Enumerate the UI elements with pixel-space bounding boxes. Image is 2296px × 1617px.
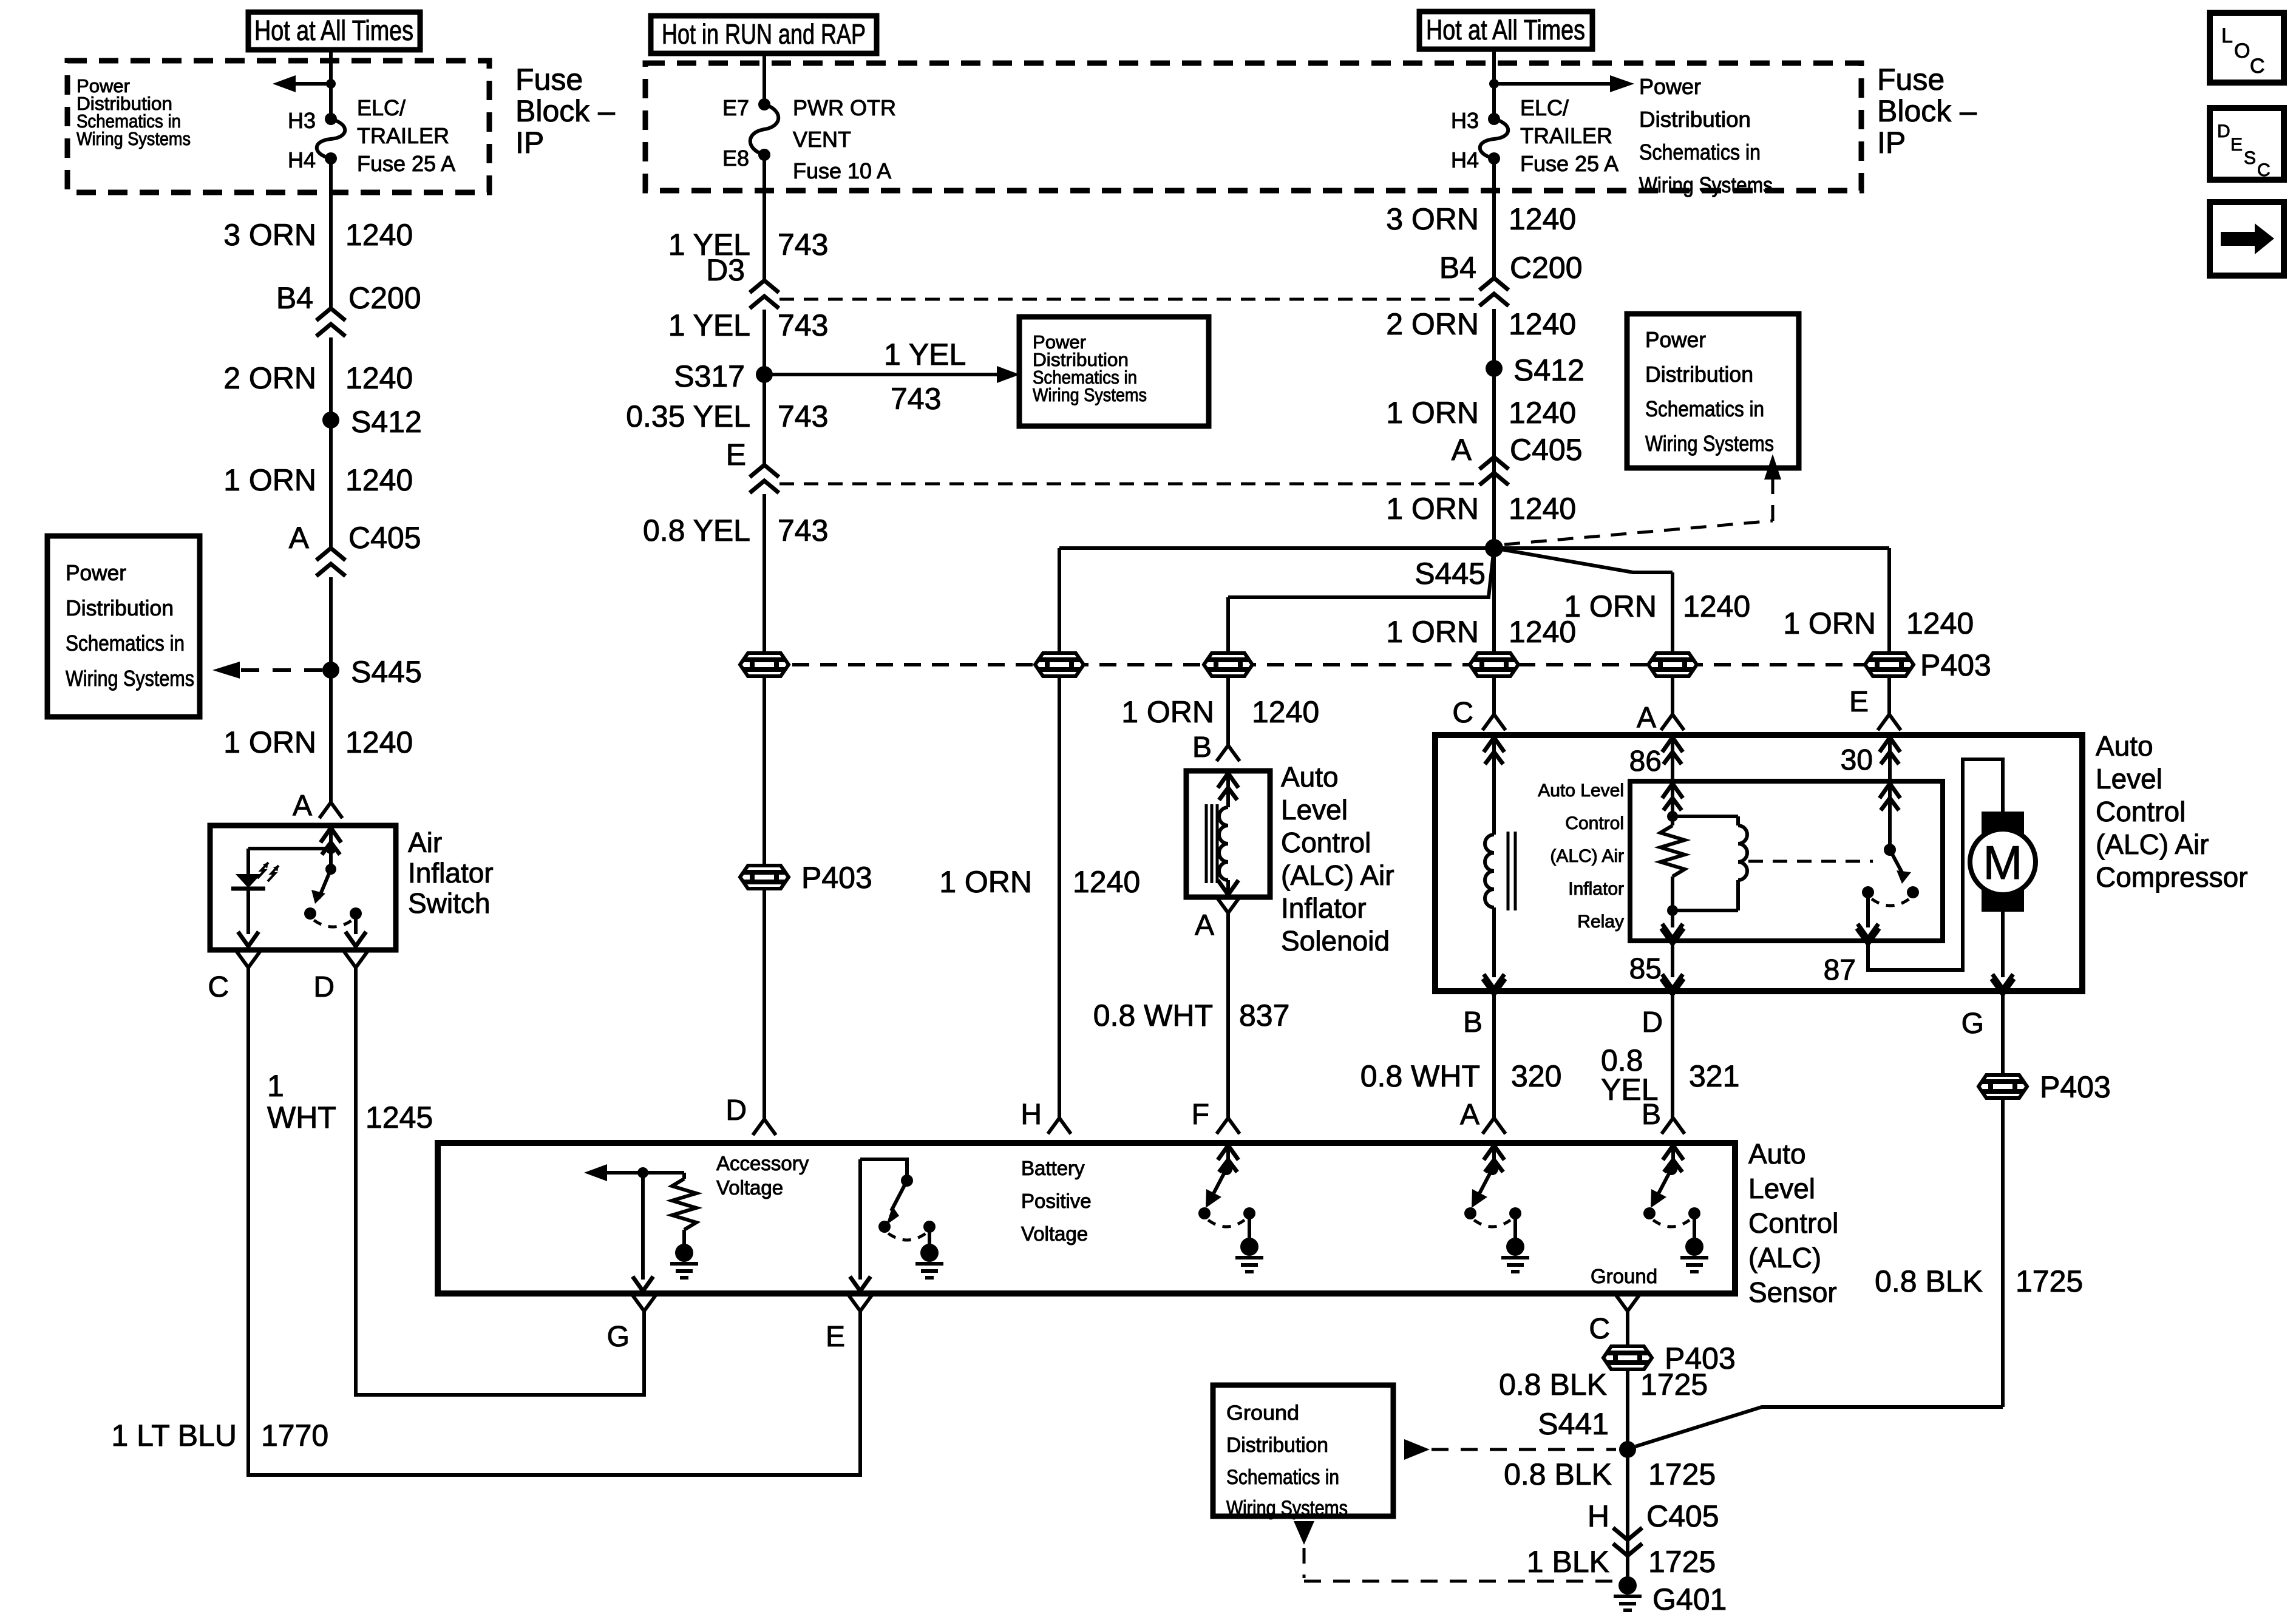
header box: Hot at All Times (left)	[248, 12, 420, 50]
relay box: ALC air inflator relay	[1630, 781, 1943, 941]
svg-text:Wiring Systems: Wiring Systems	[1639, 172, 1773, 197]
solenoid winding	[1218, 773, 1238, 800]
svg-text:1 ORN: 1 ORN	[223, 463, 316, 497]
svg-text:Distribution: Distribution	[1645, 362, 1753, 387]
svg-text:2 ORN: 2 ORN	[1386, 307, 1479, 341]
svg-text:A: A	[289, 521, 310, 555]
relay pin 85	[1671, 910, 1674, 927]
svg-text:Hot at All Times: Hot at All Times	[1426, 14, 1585, 46]
svg-text:Schematics in: Schematics in	[66, 631, 185, 656]
connector on H wire (row P403)	[1035, 653, 1084, 676]
wire: from Hot at All Times (left) into fuse block	[329, 50, 333, 119]
svg-text:3 ORN: 3 ORN	[223, 218, 316, 252]
air inflator switch: node to LED branch	[325, 843, 336, 854]
svg-text:S317: S317	[674, 359, 745, 393]
svg-text:1240: 1240	[1906, 606, 1974, 640]
svg-text:D: D	[1642, 1006, 1663, 1039]
wire: switch pin D down-right to sensor pin G (1 WHT 1245)	[356, 968, 644, 1395]
connector on E wire (row P403)	[1865, 653, 1914, 676]
connector P403 on ground wire	[1603, 1346, 1652, 1369]
component box: Air Inflator Switch	[210, 825, 396, 950]
wire: relay 87 to motor	[1868, 759, 2003, 970]
svg-text:P403: P403	[1920, 648, 1991, 682]
svg-text:Block –: Block –	[515, 94, 615, 128]
note box: Power Distribution Schematics in Wiring Systems (middle)	[1019, 317, 1209, 426]
wire: solenoid pin A down to sensor pin F (0.8 WHT 837)	[1226, 913, 1230, 1118]
svg-text:H4: H4	[1451, 147, 1479, 172]
svg-text:Hot at All Times: Hot at All Times	[254, 15, 413, 46]
svg-text:(ALC): (ALC)	[1748, 1242, 1821, 1273]
svg-text:E8: E8	[722, 146, 749, 171]
svg-text:1 ORN: 1 ORN	[939, 865, 1032, 899]
svg-text:743: 743	[778, 308, 828, 342]
wire: F column down to solenoid pin B	[1226, 676, 1230, 745]
svg-text:Distribution: Distribution	[1639, 107, 1751, 132]
svg-text:1240: 1240	[1073, 865, 1140, 899]
air inflator switch: pin D contact exit	[354, 914, 358, 934]
wire: D column down to P403 in-line connector	[763, 676, 766, 866]
svg-text:TRAILER: TRAILER	[1520, 123, 1612, 148]
wire: down to sensor pin D	[763, 889, 766, 1119]
wire: motor to pin G	[2001, 912, 2005, 977]
svg-text:H: H	[1588, 1499, 1609, 1533]
dashed reference arrow from S445 up to note box	[1504, 521, 1773, 544]
svg-text:1 BLK: 1 BLK	[1527, 1545, 1609, 1579]
svg-text:A: A	[1452, 433, 1472, 467]
connector plane dashed line C405	[779, 483, 1479, 486]
svg-text:Relay: Relay	[1577, 912, 1624, 932]
svg-text:G401: G401	[1652, 1582, 1727, 1616]
svg-text:F: F	[1192, 1099, 1209, 1131]
svg-text:Level: Level	[2096, 763, 2162, 795]
arrow branch to power distribution schematics (right fuse)	[1494, 82, 1610, 86]
svg-text:M: M	[1983, 836, 2023, 889]
note box: Ground Distribution Schematics in Wiring Systems	[1213, 1385, 1393, 1516]
svg-text:Schematics in: Schematics in	[1226, 1466, 1339, 1489]
wire: S445 branch diagonal to solenoid column F	[1228, 548, 1494, 597]
svg-text:Wiring Systems: Wiring Systems	[66, 666, 194, 691]
svg-text:C: C	[1452, 697, 1473, 729]
connector plane dashed line C200	[779, 298, 1479, 301]
splice S412 (right col)	[1486, 360, 1503, 377]
svg-text:O: O	[2234, 39, 2250, 63]
svg-text:D: D	[2217, 121, 2230, 141]
splice S445 (right)	[1485, 539, 1503, 557]
note box: Power Distribution Schematics in Wiring Systems (right)	[1627, 314, 1799, 468]
wire: S445 branch diagonal to compressor pin A column	[1494, 548, 1673, 572]
svg-text:A: A	[1460, 1099, 1479, 1131]
fuse block dashed box (left) - Fuse Block IP	[67, 61, 489, 192]
svg-text:Voltage: Voltage	[1021, 1222, 1088, 1245]
relay coil to switch dashed link	[1748, 860, 1873, 863]
svg-text:ELC/: ELC/	[357, 95, 406, 120]
LOC legend box	[2210, 13, 2284, 83]
svg-text:G: G	[607, 1321, 630, 1353]
wire: S445 down to compressor pin C	[1492, 548, 1496, 653]
svg-text:1240: 1240	[1509, 307, 1576, 341]
arrow legend box	[2210, 202, 2284, 276]
connector P403 on D wire (single)	[740, 866, 789, 889]
svg-text:S445: S445	[351, 655, 422, 689]
svg-text:E: E	[2230, 135, 2243, 155]
svg-text:1 ORN: 1 ORN	[1386, 396, 1479, 430]
svg-text:C: C	[2250, 55, 2265, 78]
wire: right fuse H4 down out of fuse block	[1492, 158, 1496, 280]
svg-text:0.8 BLK: 0.8 BLK	[1504, 1457, 1612, 1491]
svg-text:0.8 WHT: 0.8 WHT	[1360, 1059, 1480, 1093]
svg-text:3 ORN: 3 ORN	[1386, 202, 1479, 236]
svg-text:Wiring Systems: Wiring Systems	[1645, 431, 1774, 456]
svg-text:A: A	[1195, 909, 1214, 941]
svg-text:Control: Control	[1565, 813, 1624, 833]
svg-text:A: A	[1637, 702, 1656, 734]
connector on A wire (row P403)	[1648, 653, 1697, 676]
svg-text:C: C	[208, 971, 229, 1003]
dashed reference arrow from ground note box down to G401	[1294, 1521, 1314, 1545]
svg-text:WHT: WHT	[267, 1100, 336, 1134]
svg-text:H3: H3	[1451, 108, 1479, 133]
relay coil	[1673, 815, 1738, 818]
svg-text:Accessory: Accessory	[716, 1152, 809, 1175]
svg-text:D: D	[725, 1094, 747, 1127]
svg-text:Positive: Positive	[1021, 1190, 1092, 1212]
component box: Auto Level Control (ALC) Sensor	[438, 1143, 1735, 1293]
svg-text:Inflator: Inflator	[1568, 879, 1624, 899]
svg-text:C200: C200	[348, 281, 421, 315]
harness connector row P403 (dashed)	[764, 663, 1889, 666]
svg-text:0.35 YEL: 0.35 YEL	[626, 399, 750, 433]
svg-text:Wiring Systems: Wiring Systems	[1226, 1497, 1348, 1520]
connector on F wire (row P403)	[1204, 653, 1252, 676]
svg-text:1 ORN: 1 ORN	[1121, 695, 1214, 729]
sensor internal: switch at pin B	[1663, 1145, 1683, 1172]
svg-text:Level: Level	[1748, 1173, 1815, 1204]
svg-text:1 ORN: 1 ORN	[1386, 615, 1479, 649]
svg-text:837: 837	[1239, 998, 1289, 1032]
svg-text:Auto: Auto	[1281, 761, 1339, 793]
svg-text:1240: 1240	[1252, 695, 1319, 729]
svg-text:Switch: Switch	[408, 887, 490, 919]
svg-text:S441: S441	[1538, 1407, 1609, 1441]
wire: S445 branch right to compressor pin E column	[1494, 546, 1889, 550]
svg-text:IP: IP	[1877, 126, 1906, 160]
svg-text:Inflator: Inflator	[1281, 892, 1367, 924]
svg-text:0.8 BLK: 0.8 BLK	[1499, 1368, 1607, 1402]
svg-text:S: S	[2244, 148, 2256, 168]
wire: right column down to splice S445	[1492, 309, 1496, 548]
note box: Power Distribution Schematics in Wiring Systems (left)	[47, 536, 200, 717]
svg-text:P403: P403	[801, 861, 872, 895]
svg-text:Fuse: Fuse	[1877, 63, 1944, 97]
svg-text:743: 743	[778, 399, 828, 433]
sensor internal: switch at pin F	[1218, 1145, 1238, 1172]
svg-text:S445: S445	[1415, 557, 1486, 591]
svg-text:(ALC) Air: (ALC) Air	[2096, 829, 2209, 860]
wire: middle fuse E8 down	[763, 155, 766, 280]
svg-text:0.8 BLK: 0.8 BLK	[1875, 1264, 1983, 1298]
svg-text:C405: C405	[1646, 1499, 1719, 1533]
svg-text:1725: 1725	[1648, 1457, 1716, 1491]
svg-text:1 LT BLU: 1 LT BLU	[111, 1419, 237, 1453]
svg-text:S412: S412	[351, 405, 422, 439]
svg-text:1725: 1725	[2016, 1264, 2083, 1298]
svg-text:320: 320	[1511, 1059, 1561, 1093]
svg-text:Power: Power	[1639, 74, 1701, 99]
header box: Hot in RUN and RAP	[651, 16, 877, 53]
svg-text:C: C	[2257, 160, 2271, 180]
svg-text:1240: 1240	[345, 361, 413, 395]
svg-text:E: E	[826, 1321, 845, 1353]
svg-text:TRAILER: TRAILER	[357, 123, 449, 148]
svg-text:B4: B4	[276, 281, 313, 315]
svg-text:H3: H3	[288, 108, 316, 133]
svg-text:743: 743	[891, 382, 941, 416]
wire: S445 branch left to sensor pin H column	[1059, 546, 1494, 550]
svg-text:Schematics in: Schematics in	[1645, 396, 1764, 421]
sensor internal: switch at pin A	[1484, 1145, 1504, 1172]
svg-text:Hot in RUN and RAP: Hot in RUN and RAP	[662, 18, 866, 50]
svg-text:Schematics in: Schematics in	[1639, 140, 1761, 164]
svg-text:Voltage: Voltage	[716, 1176, 783, 1199]
svg-text:Distribution: Distribution	[1226, 1434, 1328, 1457]
svg-text:Compressor: Compressor	[2096, 861, 2248, 893]
connector on D wire (row P403)	[740, 653, 789, 676]
svg-text:A: A	[293, 790, 312, 822]
wire: compressor G down through P403 to splice S441 (0.8 BLK 1725)	[2001, 995, 2005, 1075]
svg-text:1770: 1770	[261, 1419, 328, 1453]
svg-text:Air: Air	[408, 827, 442, 858]
splice S412 (left col)	[322, 412, 339, 429]
svg-text:30: 30	[1841, 744, 1873, 776]
air inflator switch: switch blade	[329, 849, 333, 869]
svg-text:PWR OTR: PWR OTR	[793, 95, 896, 120]
svg-text:Fuse 10 A: Fuse 10 A	[793, 158, 891, 183]
svg-text:ELC/: ELC/	[1520, 95, 1569, 120]
svg-text:C405: C405	[1510, 433, 1583, 467]
svg-text:Power: Power	[66, 560, 126, 585]
svg-text:2 ORN: 2 ORN	[223, 361, 316, 395]
DESC legend box	[2210, 108, 2284, 180]
svg-text:1 ORN: 1 ORN	[1386, 492, 1479, 526]
air inflator switch: indicator LED	[246, 849, 250, 874]
svg-text:87: 87	[1824, 954, 1856, 986]
svg-text:Solenoid: Solenoid	[1281, 925, 1390, 957]
svg-text:1240: 1240	[345, 218, 413, 252]
svg-text:Wiring Systems: Wiring Systems	[76, 128, 191, 149]
svg-text:Auto Level: Auto Level	[1538, 781, 1624, 801]
svg-text:E: E	[726, 438, 746, 472]
arrow branch to power distribution schematics (left fuse)	[296, 82, 331, 86]
svg-text:1240: 1240	[1509, 396, 1576, 430]
svg-text:Auto: Auto	[2096, 730, 2153, 762]
svg-text:Sensor: Sensor	[1748, 1276, 1837, 1308]
svg-text:Inflator: Inflator	[408, 857, 494, 889]
wire: compressor B to sensor A (0.8 WHT 320)	[1492, 995, 1496, 1118]
component box: Auto Level Control (ALC) Air Inflator Solenoid	[1186, 771, 1270, 897]
svg-text:Auto: Auto	[1748, 1138, 1806, 1170]
svg-text:Fuse 25 A: Fuse 25 A	[1520, 151, 1618, 176]
svg-text:L: L	[2221, 24, 2233, 47]
wire: compressor D to sensor B (0.8 YEL 321)	[1671, 995, 1674, 1118]
svg-text:C405: C405	[348, 521, 421, 555]
svg-text:H: H	[1021, 1099, 1042, 1131]
svg-text:B: B	[1642, 1099, 1661, 1131]
fuse F3 ELC/TRAILER Fuse 25 A (right)	[1488, 113, 1500, 125]
svg-text:Control: Control	[1748, 1207, 1838, 1239]
svg-text:85: 85	[1629, 953, 1662, 985]
svg-text:Control: Control	[2096, 796, 2186, 827]
connector on C wire (row P403)	[1470, 653, 1518, 676]
svg-text:1240: 1240	[1509, 202, 1576, 236]
sensor internal: battery positive voltage switch (pin E)	[860, 1159, 907, 1181]
svg-text:B: B	[1463, 1006, 1483, 1039]
header box: Hot at All Times (right)	[1419, 12, 1592, 49]
svg-text:Wiring Systems: Wiring Systems	[1033, 384, 1147, 405]
svg-text:C200: C200	[1510, 251, 1583, 285]
svg-text:Control: Control	[1281, 827, 1371, 858]
svg-text:Distribution: Distribution	[66, 595, 174, 620]
svg-text:C: C	[1589, 1313, 1610, 1345]
air inflator switch: pin A entry arrow	[321, 828, 341, 855]
svg-text:D: D	[313, 971, 335, 1003]
fuse block dashed box (right) - Fuse Block IP	[645, 63, 1861, 191]
svg-text:G: G	[1961, 1008, 1984, 1040]
svg-text:1 ORN: 1 ORN	[1783, 606, 1876, 640]
fuse F2 PWR OTR VENT Fuse 10 A	[758, 98, 770, 110]
svg-text:1240: 1240	[1509, 492, 1576, 526]
svg-text:Block –: Block –	[1877, 94, 1977, 128]
svg-text:B: B	[1192, 731, 1212, 764]
wire: from Hot at All Times (right) into fuse block	[1492, 49, 1496, 119]
svg-text:E: E	[1849, 686, 1869, 718]
svg-text:Fuse: Fuse	[515, 63, 583, 97]
svg-text:1240: 1240	[345, 463, 413, 497]
wire: from Hot in RUN and RAP into fuse block	[763, 53, 766, 104]
wire: switch pin C down-right to sensor pin E (1 LT BLU 1770)	[248, 968, 860, 1475]
svg-text:1 ORN: 1 ORN	[223, 725, 316, 759]
svg-text:VENT: VENT	[793, 127, 851, 152]
fuse F1 ELC/TRAILER Fuse 25 A (left)	[325, 113, 337, 125]
svg-text:1 YEL: 1 YEL	[668, 308, 750, 342]
svg-text:1 YEL: 1 YEL	[884, 337, 966, 371]
compressor solenoid winding (pin C to pin B)	[1484, 737, 1504, 764]
relay coil resistor branch	[1667, 811, 1678, 822]
svg-text:743: 743	[778, 228, 828, 262]
svg-text:P403: P403	[2040, 1070, 2111, 1104]
svg-text:IP: IP	[515, 126, 544, 160]
svg-text:H4: H4	[288, 147, 316, 172]
svg-text:E7: E7	[722, 95, 749, 120]
dashed reference arrow from ground note box to S441	[1404, 1439, 1430, 1460]
svg-text:Battery: Battery	[1021, 1157, 1085, 1179]
svg-text:1240: 1240	[1683, 589, 1750, 623]
svg-text:Level: Level	[1281, 794, 1348, 825]
svg-text:1: 1	[267, 1069, 284, 1103]
svg-text:1 ORN: 1 ORN	[1564, 589, 1657, 623]
svg-text:1725: 1725	[1640, 1368, 1708, 1402]
air inflator switch: LED light arrows	[257, 863, 279, 881]
svg-text:S412: S412	[1513, 353, 1584, 387]
svg-text:D3: D3	[706, 253, 745, 287]
svg-text:(ALC) Air: (ALC) Air	[1281, 859, 1394, 891]
svg-text:321: 321	[1689, 1059, 1739, 1093]
splice S445 (left col) with dashed reference arrow	[322, 662, 339, 679]
svg-text:1725: 1725	[1648, 1545, 1716, 1579]
component box: Auto Level Control (ALC) Air Compressor	[1435, 735, 2082, 991]
ground G401	[1626, 1556, 1629, 1577]
wire: H column down to sensor pin H	[1058, 676, 1061, 1118]
svg-text:B4: B4	[1439, 251, 1476, 285]
svg-text:(ALC) Air: (ALC) Air	[1550, 846, 1624, 866]
svg-text:1245: 1245	[365, 1100, 433, 1134]
svg-text:86: 86	[1629, 745, 1662, 778]
svg-text:Ground: Ground	[1226, 1402, 1299, 1425]
svg-text:Power: Power	[1645, 327, 1706, 352]
relay pin 87 exit	[1866, 892, 1870, 927]
svg-text:Fuse 25 A: Fuse 25 A	[357, 151, 455, 176]
svg-text:Ground: Ground	[1591, 1265, 1657, 1287]
svg-text:0.8 YEL: 0.8 YEL	[643, 514, 750, 547]
splice S317 with branch to power distribution	[756, 366, 773, 383]
svg-text:743: 743	[778, 514, 828, 547]
svg-text:0.8 WHT: 0.8 WHT	[1093, 998, 1213, 1032]
svg-text:1240: 1240	[345, 725, 413, 759]
motor M of compressor	[1982, 812, 2024, 836]
sensor internal: accessory voltage divider (pin G)	[637, 1167, 648, 1178]
wire: left fuse H4 down out of fuse block	[329, 158, 333, 284]
